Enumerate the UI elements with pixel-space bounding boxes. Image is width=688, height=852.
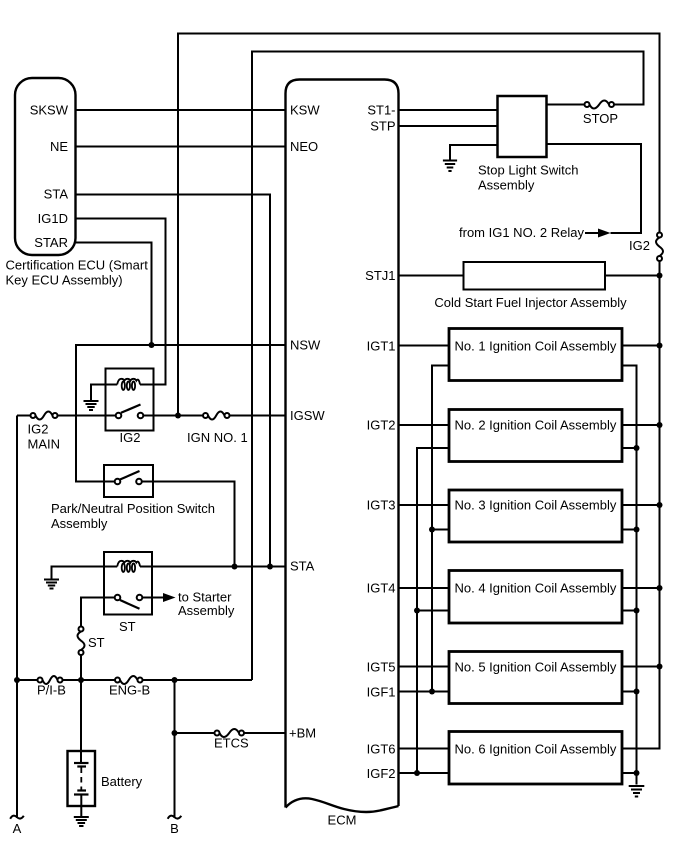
wire top loop 1 (IGSW over top to IG2 fuse)	[178, 34, 660, 416]
wire IGT4	[399, 587, 450, 589]
svg-text:Battery: Battery	[101, 774, 143, 789]
svg-text:ST: ST	[119, 619, 136, 634]
pin STA (cert) label	[44, 187, 69, 202]
node +B bus coil 1 junction	[657, 343, 663, 349]
wire battery to ground	[80, 795, 82, 817]
wire ST switch right with arrow to Starter	[142, 593, 175, 602]
svg-text:IGT4: IGT4	[367, 581, 396, 596]
wire coil 3 to +B bus	[622, 504, 660, 506]
wire coil 1 ground branch to ground bus	[622, 366, 637, 785]
ECM U1 box	[286, 80, 399, 812]
fuse ST label	[88, 635, 105, 650]
fuse IG2 MAIN label	[28, 422, 61, 452]
No. 5 Ignition Coil Assembly label	[455, 660, 617, 675]
node IGF1 bus coil 3 junction	[429, 527, 435, 533]
ground at ST relay coil	[44, 580, 59, 589]
svg-text:IGN NO. 1: IGN NO. 1	[187, 430, 248, 445]
fuse STOP label	[583, 111, 618, 126]
svg-text:+BM: +BM	[289, 726, 316, 741]
wire Stop Light Switch from IG1 NO.2 relay	[547, 144, 642, 233]
svg-text:ENG-B: ENG-B	[109, 683, 150, 698]
fuse ETCS label	[214, 736, 249, 751]
wire NE-NEO	[76, 146, 286, 148]
svg-text:No. 6 Ignition Coil Assembly: No. 6 Ignition Coil Assembly	[455, 742, 617, 757]
relay IG2 box	[106, 369, 154, 431]
node +B bus coil 3 junction	[657, 502, 663, 508]
No. 5 Ignition Coil Assembly box	[449, 652, 622, 704]
node ETCS junction	[172, 730, 178, 736]
svg-text:IGT1: IGT1	[367, 339, 396, 354]
svg-text:No. 1 Ignition Coil Assembly: No. 1 Ignition Coil Assembly	[455, 339, 617, 354]
wire ST fuse to bottom rail	[80, 655, 82, 680]
Stop Light Switch Assembly box	[498, 96, 547, 157]
wire STA(cert) to STA node	[76, 195, 271, 567]
wire coil 6 ground branch	[622, 772, 637, 774]
Stop Light Switch Assembly label	[478, 163, 578, 193]
node ground bus coil 5 junction	[634, 689, 640, 695]
wire IGF1	[399, 691, 450, 693]
svg-text:STOP: STOP	[583, 111, 618, 126]
svg-text:STA: STA	[44, 187, 69, 202]
No. 2 Ignition Coil Assembly label	[455, 418, 617, 433]
svg-text:IG1D: IG1D	[38, 211, 68, 226]
wire coil 1 to +B bus	[622, 345, 660, 347]
svg-text:NE: NE	[50, 139, 68, 154]
node ground bus coil 2 junction	[634, 445, 640, 451]
wire +B bus (right vertical)	[622, 261, 660, 749]
svg-text:ECM: ECM	[328, 813, 357, 828]
No. 4 Ignition Coil Assembly box	[449, 571, 622, 624]
wire NSW to Park/Neutral switch	[76, 345, 286, 482]
svg-text:Key ECU Assembly): Key ECU Assembly)	[6, 273, 123, 288]
wire IGT6	[399, 748, 450, 750]
node +B bus cold start junction	[657, 273, 663, 279]
ECM left pin labels	[289, 103, 325, 741]
wire IGF2	[399, 772, 450, 774]
wire IGT5	[399, 666, 450, 668]
No. 4 Ignition Coil Assembly label	[455, 581, 617, 596]
relay IG2 switch contacts and blade	[116, 405, 144, 419]
pin STAR label	[34, 235, 68, 250]
fuse ST (vertical)	[78, 627, 85, 656]
ground at Stop Light Switch	[443, 161, 457, 172]
wire STJ1 to Cold Start injector	[399, 275, 464, 277]
wire coil 3 ground branch	[622, 529, 637, 531]
svg-text:ST: ST	[88, 635, 105, 650]
Park/Neutral switch contacts and blade	[115, 471, 142, 484]
relay ST box	[104, 552, 152, 615]
wire IGSW rail left segment	[17, 415, 31, 417]
wire coil 1 IGF branch	[432, 366, 449, 692]
relay IG2 coil	[117, 379, 140, 390]
fuse ENG-B label	[109, 683, 150, 698]
wire coil 4 IGF branch	[417, 610, 449, 612]
fuse IG2 MAIN	[31, 412, 58, 420]
No. 6 Ignition Coil Assembly box	[449, 732, 622, 785]
wire ETCS fuse to ECM +BM	[244, 732, 286, 734]
wire coil 5 ground branch	[622, 691, 637, 693]
relay ST switch contacts and blade	[115, 595, 143, 609]
Cold Start Fuel Injector Assembly label	[434, 295, 627, 310]
wire ST1- to Stop Light Switch	[399, 109, 498, 111]
svg-text:No. 4 Ignition Coil Assembly: No. 4 Ignition Coil Assembly	[455, 581, 617, 596]
relay ST label	[119, 619, 136, 634]
wire IG2 relay switch to IGN NO.1 fuse	[143, 415, 203, 417]
wire top loop 2 (battery feed over top to STOP fuse)	[252, 52, 644, 681]
ECM right pin labels	[365, 103, 395, 782]
wire coil 2 IGF branch	[417, 448, 449, 773]
battery label	[101, 774, 143, 789]
wire coil 5 to +B bus	[622, 666, 660, 668]
node bottom rail B junction	[172, 677, 178, 683]
svg-text:No. 5 Ignition Coil Assembly: No. 5 Ignition Coil Assembly	[455, 660, 617, 675]
No. 6 Ignition Coil Assembly label	[455, 742, 617, 757]
arrow from IG1 NO.2 relay	[585, 229, 611, 238]
wire IGT2	[399, 424, 450, 426]
ECM label	[328, 813, 357, 828]
fuse IGN NO. 1 label	[187, 430, 248, 445]
svg-text:IGT6: IGT6	[367, 742, 396, 757]
wire STA rail (ST coil to ECM)	[140, 566, 286, 568]
Certification ECU label	[6, 258, 149, 288]
node IGF2 bus coil 4 junction	[414, 608, 420, 614]
node IGSW junction	[175, 413, 181, 419]
svg-text:IGF2: IGF2	[367, 766, 396, 781]
node +B bus coil 2 junction	[657, 422, 663, 428]
svg-text:P/I-B: P/I-B	[37, 683, 66, 698]
wire battery to bottom rail	[80, 680, 82, 763]
wire ST switch left to ST fuse	[81, 598, 115, 627]
svg-text:IG2: IG2	[629, 238, 650, 253]
svg-text:from IG1 NO. 2 Relay: from IG1 NO. 2 Relay	[459, 225, 584, 240]
svg-text:Park/Neutral Position Switch: Park/Neutral Position Switch	[51, 501, 215, 516]
node +B bus coil 4 junction	[657, 585, 663, 591]
svg-text:Assembly: Assembly	[51, 516, 108, 531]
svg-text:IGT5: IGT5	[367, 660, 396, 675]
wire coil 2 to +B bus	[622, 424, 660, 426]
node ground bus coil 4 junction	[634, 608, 640, 614]
connector B break symbol	[168, 816, 182, 819]
pin IG1D label	[38, 211, 68, 226]
fuse P/I-B label	[37, 683, 66, 698]
wire ST coil to ground	[52, 567, 118, 579]
wire left rail down to A	[16, 416, 18, 819]
svg-text:STAR: STAR	[34, 235, 68, 250]
No. 3 Ignition Coil Assembly label	[455, 498, 617, 513]
fuse STOP	[585, 101, 615, 109]
node bottom rail battery junction	[78, 677, 84, 683]
wire Cold Start injector to +B bus	[605, 275, 660, 277]
from IG1 NO. 2 Relay label	[459, 225, 584, 240]
No. 1 Ignition Coil Assembly box	[449, 329, 622, 381]
wire coil 2 ground branch	[622, 447, 637, 449]
svg-text:ST1-: ST1-	[367, 103, 395, 118]
node ground bus coil 3 junction	[634, 527, 640, 533]
fuse P/I-B	[38, 676, 63, 684]
svg-text:NSW: NSW	[290, 338, 321, 353]
svg-text:STA: STA	[290, 559, 315, 574]
connector B label	[170, 821, 179, 836]
node ground bus coil 6 junction	[634, 770, 640, 776]
svg-text:Cold Start Fuel Injector Assem: Cold Start Fuel Injector Assembly	[434, 295, 627, 310]
connector A label	[13, 821, 22, 836]
svg-text:Assembly: Assembly	[478, 178, 535, 193]
No. 2 Ignition Coil Assembly box	[449, 410, 622, 462]
wire IG1D to IG2 relay coil	[76, 219, 166, 385]
wire riser to B connector	[174, 680, 176, 818]
svg-text:KSW: KSW	[290, 103, 320, 118]
svg-text:MAIN: MAIN	[28, 437, 61, 452]
wire Stop Light Switch to ground	[450, 145, 498, 160]
svg-text:SKSW: SKSW	[30, 103, 69, 118]
svg-text:IGF1: IGF1	[367, 685, 396, 700]
battery box	[68, 751, 96, 806]
pin SKSW label	[30, 103, 69, 118]
svg-text:STP: STP	[370, 119, 395, 134]
No. 1 Ignition Coil Assembly label	[455, 339, 617, 354]
Certification ECU (Smart Key ECU Assembly) box	[15, 78, 76, 255]
wire IGT3	[399, 504, 450, 506]
wire ETCS branch	[175, 732, 215, 734]
svg-text:B: B	[170, 821, 179, 836]
wire bottom rail ENG-B to riser	[143, 679, 253, 681]
node STA junction right	[267, 564, 273, 570]
Park/Neutral Position Switch label	[51, 501, 215, 531]
battery plates	[74, 763, 89, 795]
wire IG2 MAIN fuse to IG2 relay switch	[58, 415, 117, 417]
ground at ignition coil bus	[629, 786, 645, 797]
svg-text:A: A	[13, 821, 22, 836]
svg-text:STJ1: STJ1	[365, 268, 395, 283]
wire coil 4 to +B bus	[622, 587, 660, 589]
No. 3 Ignition Coil Assembly box	[449, 490, 622, 542]
connector A break symbol	[10, 816, 24, 819]
fuse IG2 label	[629, 238, 650, 253]
svg-text:No. 3 Ignition Coil Assembly: No. 3 Ignition Coil Assembly	[455, 498, 617, 513]
pin NE label	[50, 139, 68, 154]
wire STP to Stop Light Switch	[399, 125, 498, 127]
node STA junction left	[232, 564, 238, 570]
Park/Neutral Position Switch box	[104, 465, 153, 497]
wire IGT1	[399, 345, 450, 347]
fuse ENG-B	[115, 676, 143, 684]
wire Stop Light Switch to STOP fuse	[547, 104, 585, 106]
wire SKSW-KSW	[76, 109, 286, 111]
svg-text:IGSW: IGSW	[290, 408, 325, 423]
fuse IGN NO. 1	[203, 412, 230, 420]
relay IG2 label	[120, 430, 141, 445]
relay ST coil	[117, 561, 140, 572]
svg-text:Certification ECU (Smart: Certification ECU (Smart	[6, 258, 149, 273]
svg-text:Stop Light Switch: Stop Light Switch	[478, 163, 578, 178]
svg-text:ETCS: ETCS	[214, 736, 249, 751]
svg-text:IG2: IG2	[28, 422, 49, 437]
wire coil 3 IGF branch	[432, 529, 449, 531]
node STAR-NSW junction	[149, 342, 155, 348]
wire Park/Neutral switch to STA node	[139, 482, 235, 567]
svg-text:IGT3: IGT3	[367, 498, 396, 513]
node +B bus coil 5 junction	[657, 664, 663, 670]
node IGF2 bus coil 6 junction	[414, 770, 420, 776]
svg-text:Assembly: Assembly	[178, 603, 235, 618]
wire coil 4 ground branch	[622, 610, 637, 612]
to Starter Assembly label	[178, 590, 235, 619]
svg-text:IG2: IG2	[120, 430, 141, 445]
node bottom rail left junction	[14, 677, 20, 683]
svg-text:NEO: NEO	[290, 139, 318, 154]
fuse ETCS	[215, 729, 245, 737]
fuse IG2 (vertical)	[656, 233, 663, 262]
wire IG2 coil to ground	[91, 385, 117, 401]
ground at battery	[74, 817, 89, 826]
Cold Start Fuel Injector Assembly box	[464, 262, 606, 290]
svg-text:No. 2 Ignition Coil Assembly: No. 2 Ignition Coil Assembly	[455, 418, 617, 433]
node IGF1 bus coil 5 junction	[429, 689, 435, 695]
wire IGN NO.1 fuse to ECM IGSW	[230, 415, 286, 417]
svg-text:IGT2: IGT2	[367, 418, 396, 433]
wire STAR to NSW node	[76, 243, 152, 346]
wire bottom rail P/I-B to ENG-B	[63, 679, 116, 681]
wire bottom battery rail left segment	[17, 679, 38, 681]
ground at IG2 relay coil	[84, 401, 99, 410]
